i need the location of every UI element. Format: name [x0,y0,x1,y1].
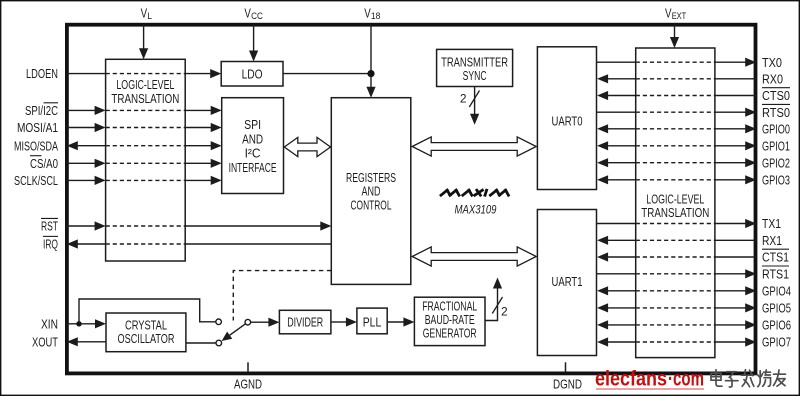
wire TX0 row [597,61,636,63]
block DIVIDER [279,310,331,334]
svg-text:CONTROL: CONTROL [351,197,392,212]
wire transmitter sync 2-bit bus down-arrow [474,87,476,115]
wire LDO output to V18 node [283,73,371,75]
IC boundary box (thick border) [67,25,756,374]
svg-text:XIN: XIN [41,316,58,331]
junction dot XIN [76,321,81,326]
svg-text:I²C: I²C [245,146,261,161]
switch common contact [245,319,251,325]
svg-text:OSCILLATOR: OSCILLATOR [118,331,175,346]
svg-text:CTS1: CTS1 [762,250,789,265]
wire divider to PLL [331,321,346,323]
wire GPIO2 row [597,158,608,167]
svg-text:DIVIDER: DIVIDER [287,314,323,329]
svg-text:GPIO7: GPIO7 [762,335,791,350]
block UART1 [537,210,596,356]
dashed clock-select control from registers [233,271,331,321]
svg-text:GPIO6: GPIO6 [762,318,791,333]
wire V18 to registers [370,24,372,88]
wire switch to divider [251,321,269,323]
wire RX1 row [597,236,608,245]
block TRANSMITTER SYNC [437,49,513,86]
svg-text:XOUT: XOUT [32,334,58,349]
svg-text:·com: ·com [668,368,704,391]
wire MOSI/A1 row [66,127,95,129]
svg-text:IRQ: IRQ [43,237,58,252]
svg-text:AGND: AGND [234,376,262,391]
svg-text:LDOEN: LDOEN [26,66,58,81]
wire XOUT output [67,337,78,346]
svg-text:CTS0: CTS0 [762,88,790,103]
wire PLL to fractional baud-rate generator [387,321,404,323]
block REGISTERS AND CONTROL [331,98,411,285]
ground pin AGND [247,362,249,372]
wire GPIO7 row [597,337,608,346]
overline for CTS0 [762,87,790,89]
svg-text:RX1: RX1 [762,233,782,248]
svg-text:RST: RST [41,219,58,234]
svg-text:18: 18 [371,11,381,22]
svg-text:INTERFACE: INTERFACE [229,160,277,175]
svg-text:EXT: EXT [672,11,687,22]
wire crystal oscillator output to switch [186,342,216,344]
wire RST row [66,225,95,227]
svg-text:2: 2 [501,305,508,319]
bus arrow registers to UART1 [412,247,536,266]
svg-text:SPI/I2C: SPI/I2C [25,103,58,118]
overline for RTS1 [762,265,789,267]
block U2 right LOGIC-LEVEL TRANSLATION [636,48,715,358]
block PLL [357,308,387,334]
wire XIN input [66,323,95,325]
wire TX1 row [597,223,636,225]
wire VL to logic-level translation [143,24,145,50]
wire CS/A0 row [66,162,95,164]
wire RTS1 row [597,273,636,275]
wire VEXT to logic-level translation [674,24,676,39]
wire crystal bypass (XIN to switch) [79,299,216,324]
wire GPIO5 row [597,303,608,312]
svg-text:GPIO2: GPIO2 [762,155,790,170]
svg-text:MOSI/A1: MOSI/A1 [17,120,58,135]
svg-text:CS/A0: CS/A0 [30,156,58,171]
wire LDOEN row [66,73,105,75]
block CRYSTAL OSCILLATOR [106,313,186,352]
wire CTS1 row [597,252,608,261]
wire SPI/I2C row [66,109,95,111]
svg-text:AND: AND [242,131,263,146]
svg-text:TX1: TX1 [762,216,781,231]
switch wiper arm with arrow [230,324,246,335]
watermark chinese characters [711,370,786,387]
svg-text:SCLK/SCL: SCLK/SCL [14,173,58,188]
block UART0 [537,47,596,190]
wire GPIO0 row [597,124,608,133]
junction dot V18/LDO output [367,70,374,77]
svg-text:2: 2 [460,92,467,106]
svg-text:SPI: SPI [244,117,261,132]
svg-text:RX0: RX0 [762,71,783,86]
svg-text:SYNC: SYNC [463,68,487,83]
wire GPIO1 row [597,141,608,150]
ground pin DGND [565,362,567,372]
overline for CTS1 [762,248,789,250]
svg-text:RTS0: RTS0 [762,105,790,120]
wire VCC to LDO [253,24,255,52]
svg-text:CC: CC [251,11,263,22]
block LDO regulator [221,62,283,87]
svg-text:TRANSLATION: TRANSLATION [111,91,179,106]
svg-text:elecfans: elecfans [595,368,667,391]
svg-text:TX0: TX0 [762,55,782,70]
svg-text:UART0: UART0 [552,114,583,129]
wire baud-rate generator 2-bit bus up-arrow [485,288,498,321]
Maxim logo [441,190,508,195]
overline for RTS0 [762,103,790,105]
svg-text:RTS1: RTS1 [762,266,789,281]
wire CTS0 row [597,91,608,100]
bus arrow SPI-interface to registers [284,137,330,156]
svg-text:GPIO5: GPIO5 [762,301,791,316]
wire MISO/SDA row [67,141,78,150]
switch throw contact (crystal) [216,340,222,346]
svg-text:DGND: DGND [553,376,582,391]
svg-text:LDO: LDO [242,66,263,81]
wire RX0 row [597,74,608,83]
wire GPIO4 row [597,286,608,295]
svg-text:GENERATOR: GENERATOR [423,325,477,340]
wire SCLK/SCL row [66,179,95,181]
svg-text:GPIO3: GPIO3 [762,172,790,187]
svg-text:GPIO0: GPIO0 [762,121,790,136]
svg-text:UART1: UART1 [552,274,583,289]
svg-text:MAX3109: MAX3109 [455,204,497,216]
svg-text:TRANSLATION: TRANSLATION [641,205,709,220]
wire GPIO3 row [597,175,608,184]
slash bus-width mark (baud generator) [492,297,502,314]
wire GPIO6 row [597,320,608,329]
wire IRQ row [67,239,78,248]
switch throw contact (bypass) [216,319,222,325]
block FRACTIONAL BAUD-RATE GENERATOR [414,297,485,345]
block SPI and I2C interface [222,98,284,194]
svg-text:PLL: PLL [363,314,382,329]
svg-text:L: L [147,11,152,22]
bus arrow registers to UART0 [412,137,536,156]
svg-text:GPIO4: GPIO4 [762,283,791,298]
slash bus-width mark (transmitter sync) [469,91,479,108]
svg-text:LOGIC-LEVEL: LOGIC-LEVEL [116,77,174,92]
svg-text:GPIO1: GPIO1 [762,138,790,153]
block U1 left LOGIC-LEVEL TRANSLATION [106,59,186,261]
svg-text:MISO/SDA: MISO/SDA [14,138,58,153]
wire RTS0 row [597,111,636,113]
